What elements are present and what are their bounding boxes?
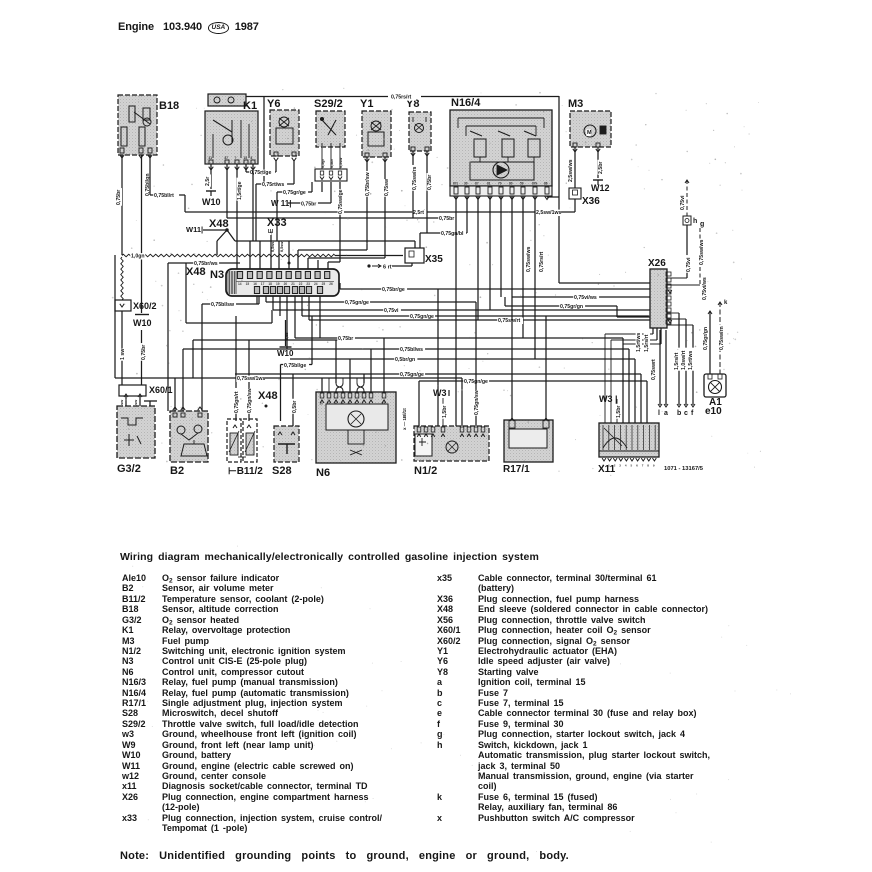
- svg-text:B18: B18: [159, 100, 179, 112]
- svg-text:h: h: [693, 218, 697, 225]
- svg-text:9: 9: [653, 464, 655, 468]
- svg-text:0,5br/gn: 0,5br/gn: [395, 357, 415, 363]
- svg-text:B2: B2: [170, 465, 184, 477]
- svg-text:W3 |: W3 |: [599, 394, 618, 404]
- svg-text:R17/1: R17/1: [503, 464, 530, 475]
- svg-text:0,75sw/rn: 0,75sw/rn: [719, 326, 725, 350]
- svg-text:0,75br/ge: 0,75br/ge: [382, 287, 405, 293]
- svg-text:X11: X11: [598, 464, 616, 475]
- svg-text:17: 17: [261, 282, 265, 286]
- svg-text:W 11|: W 11|: [271, 199, 291, 208]
- svg-text:0,75swrt: 0,75swrt: [651, 359, 657, 380]
- svg-text:1,5rs/rt: 1,5rs/rt: [674, 352, 680, 370]
- svg-text:0,75vi: 0,75vi: [680, 195, 686, 210]
- svg-text:Ш: Ш: [268, 229, 273, 235]
- svg-text:Y6: Y6: [267, 98, 280, 110]
- svg-text:0,75sw/rt: 0,75sw/rt: [498, 318, 520, 324]
- svg-text:18: 18: [268, 282, 272, 286]
- svg-text:0,75gr/ge: 0,75gr/ge: [283, 190, 306, 196]
- svg-text:0,75sw: 0,75sw: [384, 178, 390, 196]
- svg-text:0,75bl/rt: 0,75bl/rt: [154, 193, 174, 199]
- svg-text:0,75br: 0,75br: [338, 336, 353, 342]
- svg-text:0,75sw/ws: 0,75sw/ws: [699, 240, 705, 265]
- svg-text:W3: W3: [433, 388, 447, 398]
- svg-text:X36: X36: [582, 196, 600, 207]
- svg-text:c: c: [684, 410, 688, 417]
- svg-text:0,75br: 0,75br: [301, 202, 316, 208]
- svg-text:l: l: [658, 410, 660, 417]
- svg-text:81: 81: [487, 182, 491, 186]
- svg-text:26: 26: [329, 282, 333, 286]
- svg-text:0,75gn/rt: 0,75gn/rt: [234, 391, 240, 413]
- svg-text:8?: 8?: [475, 182, 479, 186]
- svg-text:0,75gn/ge: 0,75gn/ge: [345, 300, 369, 306]
- svg-text:0,75gn/sw: 0,75gn/sw: [474, 389, 480, 415]
- svg-text:W10: W10: [277, 349, 294, 358]
- svg-text:0,5br: 0,5br: [330, 158, 334, 168]
- svg-text:1 sw: 1 sw: [120, 348, 126, 360]
- svg-text:N16/4: N16/4: [451, 97, 481, 109]
- svg-text:87: 87: [225, 156, 229, 160]
- svg-text:30: 30: [320, 402, 324, 406]
- svg-text:0,75rs/rt: 0,75rs/rt: [539, 252, 545, 272]
- svg-text:1,0sw/rt: 1,0sw/rt: [681, 350, 687, 370]
- svg-text:22: 22: [299, 282, 303, 286]
- svg-text:X35: X35: [425, 254, 443, 265]
- svg-text:0,75gr/gn: 0,75gr/gn: [560, 304, 583, 310]
- svg-text:0,5sw: 0,5sw: [339, 158, 343, 168]
- svg-text:8: 8: [647, 464, 649, 468]
- svg-text:g: g: [700, 221, 704, 228]
- svg-text:W11|: W11|: [186, 225, 203, 234]
- svg-text:0,75vi: 0,75vi: [384, 308, 399, 314]
- svg-text:0,75sw/1ws: 0,75sw/1ws: [237, 376, 265, 382]
- svg-text:a: a: [664, 410, 668, 417]
- svg-text:X48: X48: [258, 390, 278, 402]
- svg-text:0,75bl/sw: 0,75bl/sw: [211, 302, 235, 308]
- svg-text:W12: W12: [591, 183, 610, 193]
- svg-text:31: 31: [209, 156, 213, 160]
- svg-text:f: f: [691, 410, 694, 417]
- svg-text:b: b: [677, 410, 681, 417]
- svg-text:1,5rt/ws: 1,5rt/ws: [688, 351, 694, 370]
- svg-text:0,75rs/rt: 0,75rs/rt: [391, 95, 411, 101]
- svg-text:1,0gn: 1,0gn: [131, 254, 145, 260]
- svg-text:19: 19: [276, 282, 280, 286]
- svg-text:0,75sw/rs: 0,75sw/rs: [412, 167, 418, 190]
- svg-text:2,5br: 2,5br: [598, 162, 604, 174]
- svg-text:7: 7: [642, 464, 644, 468]
- svg-text:8: 8: [251, 156, 253, 160]
- svg-text:N1/2: N1/2: [414, 465, 437, 477]
- svg-text:S28: S28: [272, 465, 292, 477]
- svg-text:30: 30: [464, 182, 468, 186]
- svg-text:0,75br: 0,75br: [141, 345, 147, 360]
- svg-text:S29/2: S29/2: [314, 98, 343, 110]
- svg-text:16: 16: [253, 282, 257, 286]
- svg-text:⊢B11/2: ⊢B11/2: [228, 466, 263, 477]
- svg-text:0,75bl/ge: 0,75bl/ge: [284, 363, 306, 369]
- svg-text:W10: W10: [202, 197, 221, 207]
- svg-text:86: 86: [544, 182, 548, 186]
- svg-text:1,5rt/ws: 1,5rt/ws: [636, 333, 642, 352]
- svg-text:0,5sw: 0,5sw: [280, 242, 284, 252]
- svg-text:1,5rs/rt: 1,5rs/rt: [644, 334, 650, 352]
- svg-text:15: 15: [246, 282, 250, 286]
- svg-text:0,75bl/ws: 0,75bl/ws: [400, 347, 423, 353]
- svg-text:21: 21: [291, 282, 295, 286]
- svg-text:N3: N3: [210, 269, 224, 281]
- svg-text:1,5br: 1,5br: [442, 406, 448, 418]
- svg-text:20: 20: [284, 282, 288, 286]
- svg-text:X60/2: X60/2: [133, 301, 157, 311]
- svg-text:Y1: Y1: [360, 98, 373, 110]
- svg-text:24: 24: [314, 282, 318, 286]
- svg-text:0,75vi: 0,75vi: [686, 257, 692, 272]
- svg-text:80: 80: [509, 182, 513, 186]
- svg-text:6 rt: 6 rt: [383, 264, 392, 270]
- svg-text:0,75br: 0,75br: [116, 190, 122, 205]
- svg-text:K1: K1: [243, 100, 257, 112]
- svg-text:0,75br/sw: 0,75br/sw: [365, 171, 371, 196]
- svg-text:0,5ws: 0,5ws: [271, 242, 275, 252]
- svg-text:15: 15: [244, 156, 248, 160]
- svg-text:0,75vi/ws: 0,75vi/ws: [574, 295, 597, 301]
- svg-text:2,5r: 2,5r: [205, 177, 211, 186]
- svg-text:e10: e10: [705, 406, 722, 417]
- svg-text:1,5br: 1,5br: [616, 406, 622, 418]
- svg-text:X33: X33: [267, 217, 287, 229]
- svg-text:1,5rt/ge: 1,5rt/ge: [237, 181, 243, 200]
- svg-text:3: 3: [619, 464, 621, 468]
- svg-text:6: 6: [636, 464, 638, 468]
- svg-text:M: M: [587, 130, 592, 136]
- svg-text:14: 14: [238, 282, 242, 286]
- svg-text:0,75gr/gn: 0,75gr/gn: [703, 327, 709, 350]
- svg-text:0,75gn/bl: 0,75gn/bl: [441, 231, 464, 237]
- svg-text:0,75gn/ge: 0,75gn/ge: [400, 372, 424, 378]
- svg-text:25: 25: [322, 282, 326, 286]
- svg-text:X48: X48: [209, 218, 229, 230]
- svg-text:0,75sw/ws: 0,75sw/ws: [526, 247, 532, 272]
- svg-text:0,75vi/ws: 0,75vi/ws: [702, 277, 708, 300]
- svg-text:87z: 87z: [453, 182, 459, 186]
- svg-text:X60/1: X60/1: [149, 385, 173, 395]
- svg-text:?: ?: [235, 156, 237, 160]
- svg-text:0,75gn/sw: 0,75gn/sw: [247, 387, 253, 413]
- svg-text:W10: W10: [133, 318, 152, 328]
- svg-text:59: 59: [520, 182, 524, 186]
- svg-text:X26: X26: [648, 258, 666, 269]
- svg-text:2,5rt: 2,5rt: [413, 210, 424, 216]
- svg-text:4: 4: [625, 464, 627, 468]
- svg-text:N6: N6: [316, 467, 330, 479]
- svg-text:70: 70: [498, 182, 502, 186]
- svg-text:2,5sw/1ws: 2,5sw/1ws: [536, 210, 561, 216]
- svg-text:X48: X48: [186, 266, 206, 278]
- svg-text:5: 5: [631, 464, 633, 468]
- svg-text:1071 - 13167/5: 1071 - 13167/5: [664, 466, 704, 472]
- svg-text:0,5br: 0,5br: [292, 401, 298, 413]
- svg-text:M3: M3: [568, 98, 583, 110]
- svg-text:0,5gr: 0,5gr: [321, 158, 325, 168]
- svg-text:G3/2: G3/2: [117, 463, 141, 475]
- svg-text:87k: 87k: [532, 182, 538, 186]
- svg-text:0,75rt/ws: 0,75rt/ws: [262, 182, 284, 188]
- svg-text:23: 23: [306, 282, 310, 286]
- svg-text:0,75sw/ge: 0,75sw/ge: [338, 189, 344, 214]
- svg-text:0,75gn/ge: 0,75gn/ge: [410, 314, 434, 320]
- svg-text:0,75br: 0,75br: [439, 216, 454, 222]
- svg-text:x — 1Bl/1t: x — 1Bl/1t: [402, 408, 407, 430]
- svg-text:0,5b: 0,5b: [285, 332, 289, 340]
- svg-text:0,75br: 0,75br: [427, 175, 433, 190]
